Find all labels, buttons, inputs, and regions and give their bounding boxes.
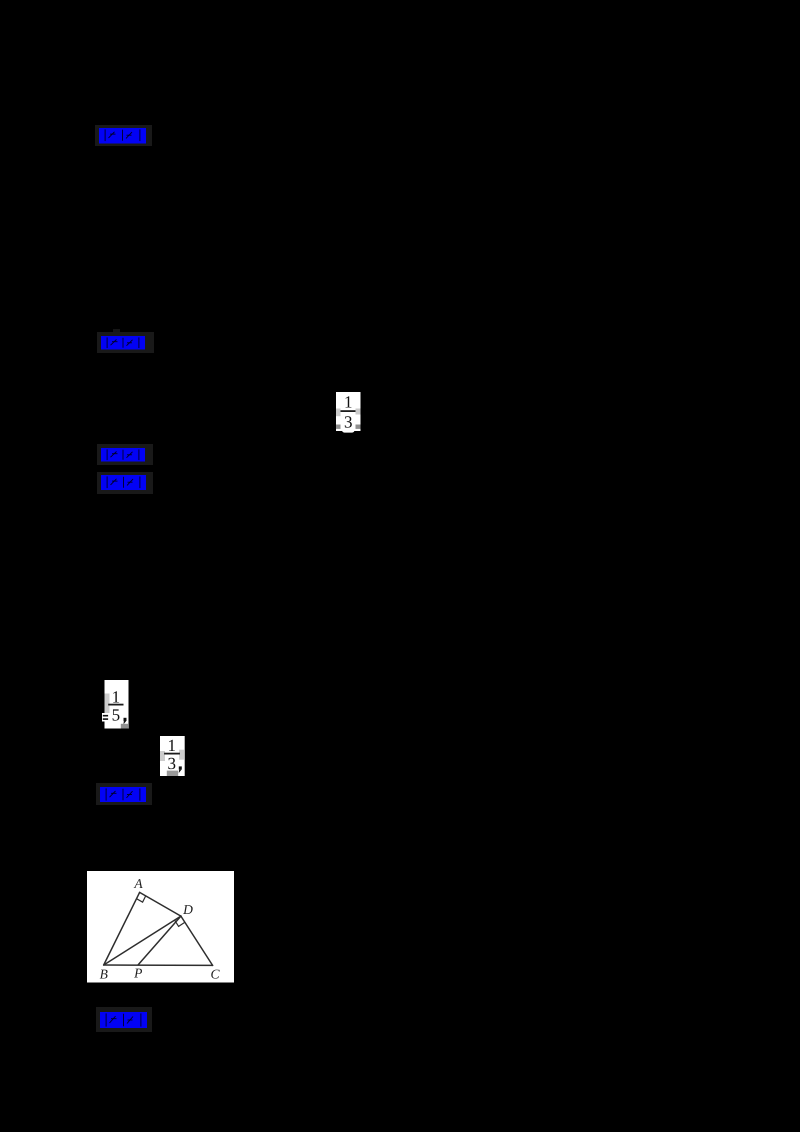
svg-text:3: 3 bbox=[343, 412, 352, 431]
fraction =1/5 bbox=[102, 680, 129, 729]
svg-text:1: 1 bbox=[343, 392, 352, 411]
svg-text:5: 5 bbox=[111, 705, 120, 724]
svg-text:P: P bbox=[133, 966, 142, 981]
svg-text:D: D bbox=[182, 902, 193, 917]
blue label 4 bbox=[101, 475, 146, 490]
highlight box behind label 5 bbox=[96, 783, 152, 805]
highlight box behind label 4 bbox=[97, 472, 153, 494]
svg-text:C: C bbox=[210, 967, 220, 982]
stray faint mark above label 2 bbox=[113, 329, 120, 334]
geometry figure bbox=[87, 871, 234, 983]
blue label 5 bbox=[100, 787, 146, 802]
highlight box behind label 6 bbox=[96, 1007, 152, 1032]
blue label 3 bbox=[101, 448, 145, 462]
svg-text:3: 3 bbox=[167, 754, 176, 773]
blue label 2 bbox=[101, 336, 145, 350]
blue label 6 bbox=[100, 1012, 147, 1029]
highlight box behind label 2 bbox=[97, 332, 154, 353]
blue label 1 bbox=[99, 128, 146, 144]
fraction 1/3 (first) bbox=[336, 392, 361, 434]
svg-text:B: B bbox=[100, 967, 108, 982]
svg-text:A: A bbox=[133, 876, 143, 891]
highlight box behind label 3 bbox=[97, 444, 153, 465]
fraction 1/3 (second) bbox=[160, 736, 185, 777]
svg-text:1: 1 bbox=[111, 687, 120, 706]
highlight box behind label 1 bbox=[95, 125, 152, 146]
svg-text:1: 1 bbox=[167, 736, 176, 755]
